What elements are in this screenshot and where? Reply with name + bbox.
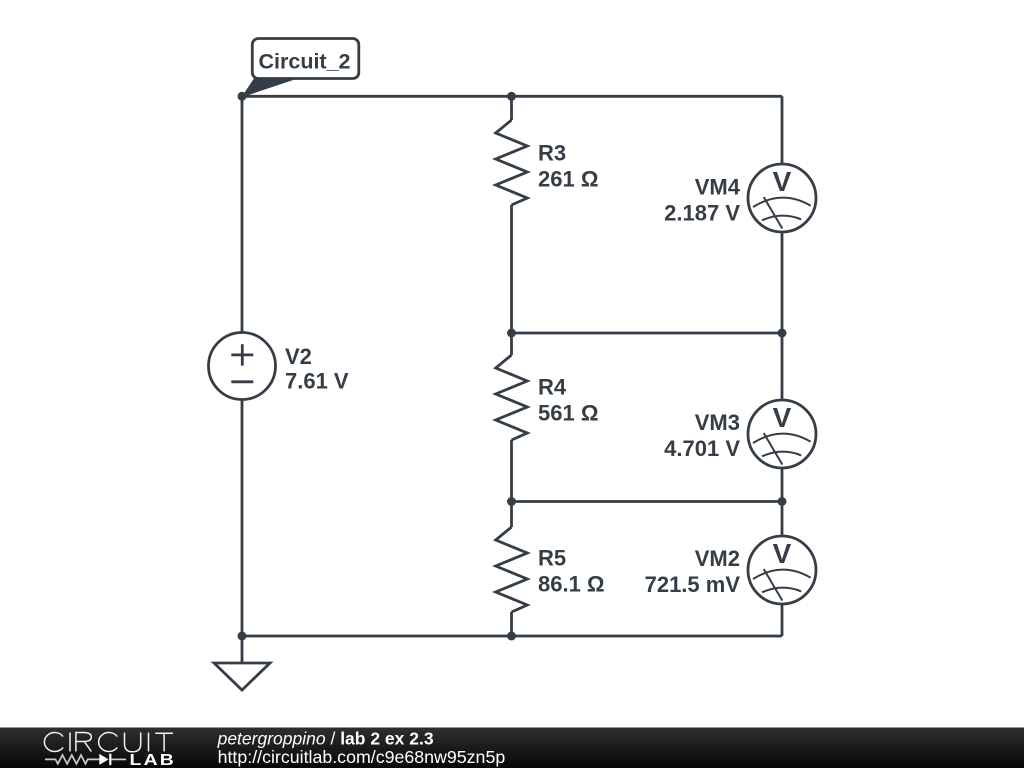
label V2 value xyxy=(285,344,349,394)
wire right branch VM4 to row2 xyxy=(781,232,784,333)
logo resistor-diode symbol xyxy=(45,754,126,765)
svg-text:VM2: VM2 xyxy=(695,546,740,571)
svg-text:V: V xyxy=(773,538,792,569)
label R3 value xyxy=(538,141,598,192)
voltmeter VM2 xyxy=(748,536,816,604)
label VM3 value xyxy=(664,410,740,461)
node E row3 middle junction xyxy=(507,497,516,506)
svg-text:R5: R5 xyxy=(538,546,566,571)
svg-text:4.701 V: 4.701 V xyxy=(664,436,740,461)
wire bottom horizontal xyxy=(242,635,782,638)
svg-text:VM4: VM4 xyxy=(695,175,741,200)
logo CIRCUIT wordmark xyxy=(44,733,173,752)
svg-text:V2: V2 xyxy=(285,344,312,369)
svg-text:Circuit_2: Circuit_2 xyxy=(259,50,351,74)
wire right branch VM2 to bottom xyxy=(781,604,784,636)
wire right branch row2 to VM3 xyxy=(781,333,784,400)
svg-text:http://circuitlab.com/c9e68nw9: http://circuitlab.com/c9e68nw95zn5p xyxy=(218,747,506,767)
svg-text:V: V xyxy=(773,166,792,197)
voltmeter VM3 xyxy=(748,400,816,468)
svg-text:261 Ω: 261 Ω xyxy=(538,167,598,192)
svg-text:V: V xyxy=(773,402,792,433)
wire top horizontal xyxy=(242,95,782,98)
label R5 value xyxy=(538,546,605,597)
node F row3 right junction xyxy=(778,497,787,506)
wire middle branch between R4 and row3 xyxy=(510,440,513,502)
resistor R5 xyxy=(496,527,528,612)
svg-text:R4: R4 xyxy=(538,375,567,400)
footer bar xyxy=(0,728,1024,769)
wire middle branch between row3 and R5 xyxy=(510,502,513,528)
svg-text:561 Ω: 561 Ω xyxy=(538,401,598,426)
wire middle branch between R3 and row2 xyxy=(510,205,513,333)
voltage source V2 xyxy=(209,333,276,400)
wire right branch VM3 to row3 xyxy=(781,468,784,502)
node H bottom-middle junction xyxy=(507,632,516,641)
label R4 value xyxy=(538,375,598,426)
svg-text:petergroppino / lab 2 ex 2.3: petergroppino / lab 2 ex 2.3 xyxy=(217,729,434,749)
voltmeter VM4 xyxy=(748,164,816,232)
node label Circuit_2 xyxy=(243,39,359,97)
resistor R4 xyxy=(496,355,528,440)
node A top-left junction xyxy=(238,92,247,101)
node B top-middle junction xyxy=(507,92,516,101)
resistor R3 xyxy=(496,120,528,205)
wire right branch top xyxy=(781,96,784,164)
label VM4 value xyxy=(664,175,741,226)
ground xyxy=(214,636,270,690)
label VM2 value xyxy=(645,546,741,597)
svg-text:LAB: LAB xyxy=(130,751,177,768)
svg-text:2.187 V: 2.187 V xyxy=(664,201,740,226)
wire middle branch bottom stub xyxy=(510,612,513,636)
wire middle branch between row2 and R4 xyxy=(510,333,513,355)
wire right branch row3 to VM2 xyxy=(781,502,784,537)
wire middle branch top stub xyxy=(510,96,513,120)
svg-text:86.1 Ω: 86.1 Ω xyxy=(538,572,605,597)
wire left branch lower xyxy=(241,400,244,637)
wire left branch upper xyxy=(241,96,244,332)
node C row2 middle junction xyxy=(507,329,516,338)
node G bottom-left junction xyxy=(238,632,247,641)
svg-text:R3: R3 xyxy=(538,141,566,166)
node D row2 right junction xyxy=(778,329,787,338)
svg-text:VM3: VM3 xyxy=(695,410,740,435)
wire row3 horizontal xyxy=(512,500,783,503)
svg-text:721.5 mV: 721.5 mV xyxy=(645,572,741,597)
wire row2 horizontal xyxy=(512,332,783,335)
svg-text:7.61 V: 7.61 V xyxy=(285,369,349,394)
